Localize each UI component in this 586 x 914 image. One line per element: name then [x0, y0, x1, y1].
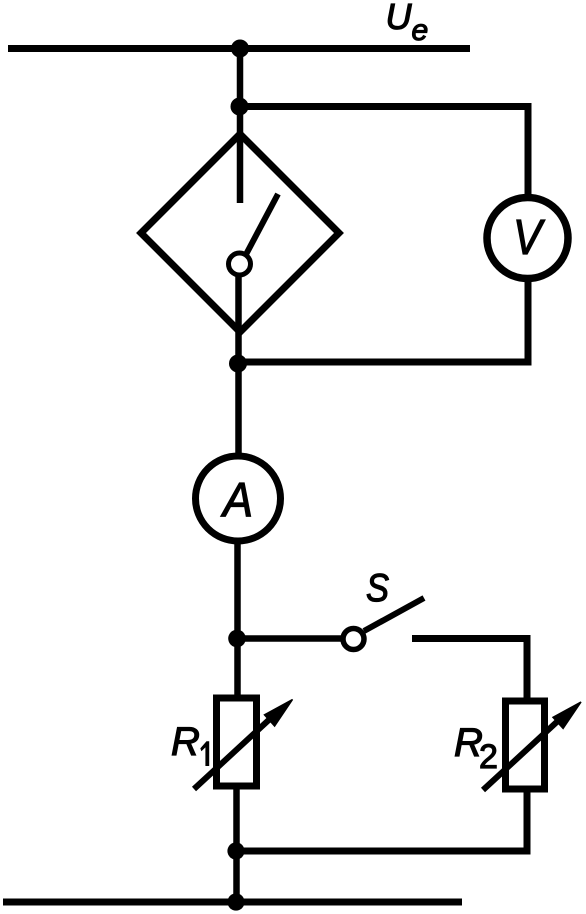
svg-text:U: U: [386, 0, 413, 37]
node junction bottom: [227, 842, 244, 859]
resistor R2 arrow head: [553, 702, 581, 728]
wire V branch top: [240, 107, 528, 199]
resistor R2 arrow shaft: [483, 719, 560, 790]
wire switch to R2: [412, 639, 527, 705]
wire diamond to ammeter: [235, 275, 242, 456]
switch S pivot circle: [343, 629, 364, 650]
wire main vertical upper: [237, 49, 244, 204]
node junction switch branch: [228, 630, 246, 648]
wire top bus: [8, 45, 470, 52]
resistor R1 arrow shaft: [194, 717, 272, 789]
node junction V branch bottom: [229, 355, 247, 373]
svg-text:2: 2: [479, 738, 498, 776]
svg-text:R: R: [171, 720, 200, 764]
node junction bottom bus: [227, 893, 244, 910]
switch S lever: [364, 598, 424, 631]
node junction top bus: [231, 40, 249, 58]
node junction V branch top: [231, 98, 249, 116]
switch-in-diamond pivot circle: [229, 253, 251, 275]
wire R2 to bottom junction: [237, 786, 527, 851]
wire bottom bus: [3, 899, 462, 906]
svg-text:e: e: [412, 14, 429, 47]
voltmeter U1 circle: [487, 198, 568, 279]
svg-text:S: S: [366, 567, 389, 610]
ammeter U2 circle: [196, 456, 281, 541]
wire V branch bottom: [238, 278, 528, 362]
wire junction to switch: [237, 635, 342, 642]
wire R1 to bottom bus: [233, 786, 240, 905]
resistor R1 body: [217, 698, 257, 786]
svg-text:V: V: [513, 211, 545, 265]
wire junction to R1: [234, 639, 241, 702]
svg-text:A: A: [220, 474, 253, 527]
resistor R2 body: [506, 701, 545, 789]
switch-in-diamond S1 outline: [141, 134, 339, 332]
resistor R1 arrow head: [265, 700, 293, 727]
switch-in-diamond lever: [247, 194, 279, 254]
wire ammeter to switch junction: [234, 540, 241, 642]
